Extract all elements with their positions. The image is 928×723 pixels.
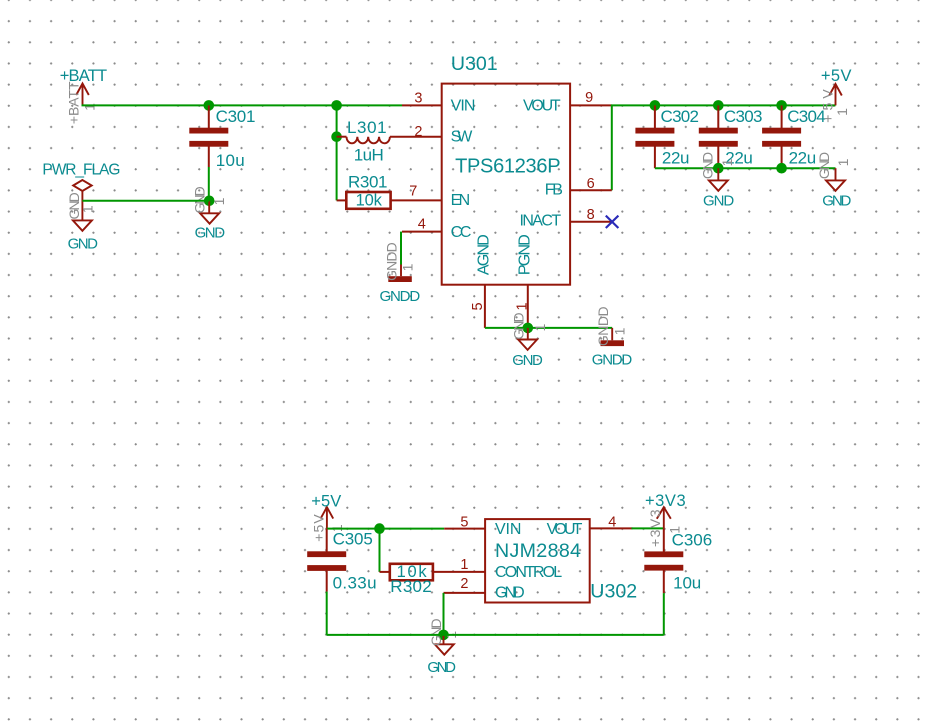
ground GND right [826, 180, 845, 190]
ground stem under C301 [208, 201, 210, 214]
inductor L301 [337, 136, 347, 138]
svg-text:U302: U302 [590, 580, 637, 602]
capacitor C303 [699, 128, 738, 134]
wire CC to GNDD [400, 232, 402, 265]
capacitor C305 [307, 551, 346, 557]
pin 2 GND stub U302 [444, 592, 486, 594]
svg-text:U301: U301 [451, 53, 498, 75]
svg-text:GND: GND [427, 659, 456, 676]
capacitor C306 pin 1 [663, 528, 665, 551]
svg-text:1: 1 [79, 205, 95, 213]
resistor R301 pin 2 to EN [391, 199, 442, 201]
IC U301 TPS61236P body [442, 84, 570, 285]
svg-text:C301: C301 [216, 107, 256, 126]
pin 3 VIN stub [402, 104, 442, 106]
pin 1 PGND stub [527, 285, 529, 328]
junction GND rail at C304 [776, 163, 787, 174]
svg-text:GND: GND [510, 313, 526, 340]
ground GND under PGND [518, 340, 537, 350]
svg-text:AGND: AGND [476, 235, 493, 275]
wire GND net PWR_FLAG to C301 [82, 200, 209, 202]
svg-text:1: 1 [835, 158, 851, 166]
svg-text:INACT: INACT [520, 213, 562, 230]
svg-text:1: 1 [612, 327, 628, 335]
junction C304 top [776, 100, 787, 111]
svg-text:8: 8 [587, 207, 595, 223]
svg-text:10u: 10u [673, 574, 701, 593]
power symbol +BATT arrow [82, 84, 84, 106]
capacitor C302 [635, 128, 674, 134]
svg-text:R302: R302 [390, 577, 432, 596]
ground stem right GND [835, 168, 837, 180]
svg-text:C302: C302 [661, 107, 699, 126]
svg-text:C305: C305 [333, 530, 373, 549]
junction PGND / GND [523, 323, 534, 334]
svg-text:9: 9 [585, 90, 593, 106]
svg-text:1: 1 [211, 197, 227, 205]
capacitor C305 pin 2 [326, 571, 328, 592]
svg-text:0.33u: 0.33u [333, 573, 377, 592]
capacitor C302 pin 1 [654, 105, 656, 128]
pin 9 VOUT stub [570, 104, 612, 106]
svg-text:CC: CC [451, 224, 471, 241]
resistor R302 body [390, 564, 433, 581]
capacitor C304 pin 2 [781, 146, 783, 168]
resistor R301 body [346, 192, 390, 209]
wire GND pin down [443, 593, 445, 635]
capacitor C301 pin 2 [208, 146, 210, 167]
power symbol +5V arrow top [835, 84, 837, 105]
wire output GND rail [655, 167, 836, 169]
wire C301 to GND junction [208, 167, 210, 201]
junction PWR_FLAG / C301 GND [204, 196, 215, 207]
pin 6 FB stub [570, 189, 612, 191]
junction C302 top [650, 100, 661, 111]
svg-text:22u: 22u [662, 149, 689, 168]
svg-text:+5V: +5V [819, 85, 835, 123]
power symbol GNDD below CC [400, 265, 402, 277]
junction bottom GND rail [438, 630, 449, 641]
pin 8 INACT stub [570, 221, 611, 223]
svg-text:+5V: +5V [311, 513, 327, 542]
svg-text:GNDD: GNDD [595, 307, 611, 347]
capacitor C301 pin 1 [208, 105, 210, 128]
wire VOUT to FB [611, 105, 613, 190]
svg-text:GND: GND [822, 193, 851, 210]
wire branch vertical to L301/R301 [336, 105, 338, 200]
wire junction down to R302 [379, 529, 381, 572]
wire +5V to VIN U302 [327, 528, 444, 530]
svg-text:C306: C306 [672, 531, 713, 550]
no-connect X on INACT [606, 216, 619, 228]
power symbol GNDD right [611, 328, 613, 340]
junction VIN rail to L301 branch [331, 100, 342, 111]
capacitor C304 [762, 128, 801, 134]
svg-text:GND: GND [512, 352, 543, 369]
wire VOUT to +3V3 [632, 527, 664, 529]
svg-text:VIN: VIN [451, 98, 475, 115]
power symbol +5V arrow bottom [326, 507, 328, 528]
svg-text:4: 4 [418, 216, 426, 232]
ground GND under C301 [200, 213, 219, 223]
svg-text:GND: GND [195, 225, 226, 242]
IC U302 NJM2884 body [485, 519, 590, 602]
svg-text:1uH: 1uH [354, 146, 384, 165]
ground GND bottom [435, 644, 454, 654]
svg-text:FB: FB [545, 181, 562, 198]
ground stem under C303 [717, 168, 719, 180]
junction R302 branch [374, 523, 385, 534]
svg-text:1: 1 [532, 323, 548, 331]
svg-text:C303: C303 [724, 107, 762, 126]
ground GND under C303 [709, 180, 728, 190]
pin 5 AGND stub [484, 285, 486, 328]
wire VIN rail [82, 104, 403, 106]
capacitor C302 pin 2 [654, 146, 656, 168]
wire C306 to bottom rail [663, 593, 665, 635]
junction C301 top [204, 100, 215, 111]
ground stem bottom GND [443, 635, 445, 644]
wire +5V rail [611, 104, 836, 106]
power symbol +3V3 arrow [663, 507, 665, 528]
svg-text:CONTROL: CONTROL [495, 564, 562, 581]
svg-text:GND: GND [428, 618, 444, 646]
svg-text:GNDD: GNDD [592, 351, 633, 368]
svg-text:R301: R301 [348, 173, 387, 192]
svg-text:+5V: +5V [311, 492, 341, 510]
resistor R302 pin 1 [380, 571, 390, 573]
capacitor C305 pin 1 [326, 529, 328, 552]
pin 5 VIN stub U302 [444, 528, 485, 530]
svg-text:1: 1 [460, 557, 468, 573]
svg-text:VIN: VIN [495, 521, 521, 538]
svg-text:2: 2 [414, 124, 422, 140]
junction at L301 pin 1 [331, 131, 342, 142]
svg-text:7: 7 [409, 183, 417, 199]
pin 4 VOUT stub U302 [590, 527, 633, 529]
PWR_FLAG flag symbol [73, 180, 92, 191]
svg-text:1: 1 [400, 263, 416, 271]
svg-text:1: 1 [82, 103, 98, 111]
PWR_FLAG stem / GND stem [81, 191, 83, 220]
svg-text:3: 3 [414, 90, 422, 106]
svg-text:NJM2884: NJM2884 [495, 540, 581, 562]
capacitor C306 pin 2 [663, 570, 665, 593]
svg-text:GNDD: GNDD [384, 242, 400, 280]
svg-text:PGND: PGND [517, 235, 534, 275]
svg-text:2: 2 [460, 576, 468, 592]
wire bottom GND rail [327, 634, 664, 636]
wire AGND/PGND ground net [485, 327, 612, 329]
svg-text:+5V: +5V [821, 67, 852, 85]
svg-text:GND: GND [495, 585, 524, 602]
svg-text:L301: L301 [347, 118, 387, 137]
junction GND rail at C303 [713, 163, 724, 174]
svg-text:PWR_FLAG: PWR_FLAG [42, 161, 119, 178]
wire C305 to GND rail [326, 592, 328, 635]
svg-text:+3V3: +3V3 [645, 492, 686, 510]
junction C303 top [713, 100, 724, 111]
svg-text:5: 5 [460, 515, 468, 531]
svg-text:5: 5 [470, 302, 486, 310]
svg-text:1: 1 [834, 108, 850, 116]
ground stem under PGND [527, 328, 529, 340]
capacitor C301 [189, 128, 228, 134]
svg-text:EN: EN [451, 192, 470, 209]
svg-text:VOUT: VOUT [523, 98, 561, 115]
capacitor C306 [644, 551, 683, 557]
capacitor C303 pin 1 [717, 105, 719, 128]
svg-text:SW: SW [451, 128, 474, 145]
svg-text:GNDD: GNDD [380, 288, 421, 305]
svg-text:22u: 22u [789, 149, 816, 168]
capacitor C303 pin 2 [717, 146, 719, 168]
svg-text:+BATT: +BATT [65, 81, 81, 124]
svg-text:TPS61236P: TPS61236P [455, 156, 560, 178]
svg-text:GND: GND [816, 152, 832, 179]
svg-text:10k: 10k [356, 192, 383, 210]
capacitor C304 pin 1 [781, 105, 783, 128]
pin 4 CC stub [402, 231, 442, 233]
resistor R302 pin 2 to CONTROL [433, 571, 485, 573]
svg-text:VOUT: VOUT [547, 521, 583, 538]
svg-text:10u: 10u [216, 151, 245, 170]
svg-text:GND: GND [68, 235, 99, 252]
svg-text:GND: GND [703, 193, 734, 210]
svg-text:GND: GND [700, 152, 716, 179]
ground GND under PWR_FLAG [73, 220, 92, 230]
svg-text:+3V3: +3V3 [647, 508, 663, 547]
svg-text:1: 1 [719, 158, 735, 166]
resistor R301 pin 1 [337, 199, 347, 201]
